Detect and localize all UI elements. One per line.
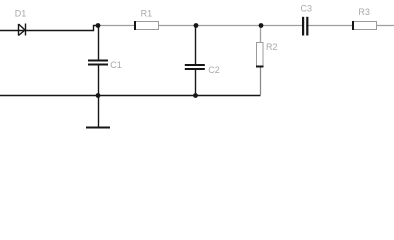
svg-text:C2: C2 xyxy=(208,65,220,75)
svg-text:C1: C1 xyxy=(110,60,122,70)
svg-text:R2: R2 xyxy=(266,42,278,52)
svg-text:D1: D1 xyxy=(15,8,27,18)
svg-text:C3: C3 xyxy=(301,4,313,14)
svg-text:R1: R1 xyxy=(141,8,153,18)
svg-text:R3: R3 xyxy=(358,7,370,17)
